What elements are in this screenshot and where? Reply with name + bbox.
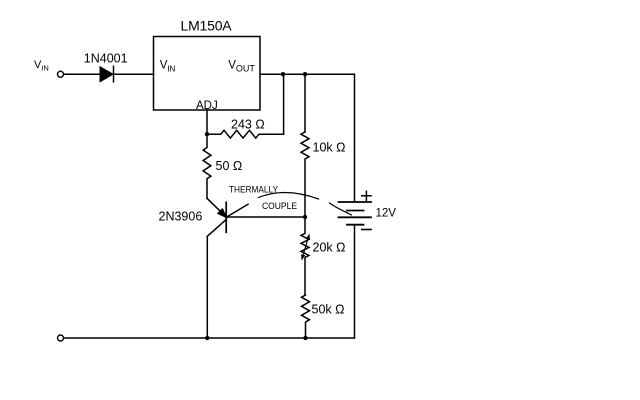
resistor R2 50ohm	[203, 134, 211, 198]
battery plus sign	[362, 191, 371, 200]
svg-text:OUT: OUT	[236, 64, 256, 74]
wire battery bottom	[354, 225, 356, 338]
wire base to divider node	[226, 216, 305, 218]
node junction dot Vout/10k	[303, 72, 307, 76]
transistor Q1 2N3906	[207, 198, 226, 236]
regulator U1 LM150A box	[154, 37, 261, 111]
wire input to diode	[64, 73, 100, 75]
node ground terminal	[58, 335, 64, 341]
node junction dot base/divider	[303, 215, 307, 219]
wire collector down to bottom rail	[206, 236, 208, 338]
node junction dot collector/rail	[205, 336, 209, 340]
node junction dot ADJ	[205, 132, 209, 136]
svg-text:50k Ω: 50k Ω	[312, 303, 345, 317]
node Vin input terminal	[58, 71, 64, 77]
resistor R5 50k	[302, 295, 310, 338]
wire ADJ pin down	[206, 110, 208, 134]
svg-text:50 Ω: 50 Ω	[216, 159, 243, 173]
resistor R3 10k	[301, 132, 309, 217]
wire 10k top lead	[304, 74, 306, 132]
arrow through 20k	[301, 234, 310, 261]
svg-text:12V: 12V	[376, 208, 397, 220]
diode D1 1N4001	[100, 66, 114, 82]
node junction dot Vout/243	[281, 72, 285, 76]
resistor R4 20k	[301, 217, 309, 295]
svg-text:20k Ω: 20k Ω	[313, 241, 346, 255]
battery minus sign	[362, 229, 371, 231]
svg-text:1N4001: 1N4001	[84, 52, 128, 66]
wire Vout to battery top rail	[260, 74, 355, 202]
svg-text:COUPLE: COUPLE	[262, 201, 297, 212]
pin label Vin	[160, 59, 176, 73]
svg-text:2N3906: 2N3906	[159, 210, 203, 224]
svg-text:IN: IN	[41, 64, 49, 73]
node junction dot 50k/rail	[303, 336, 307, 340]
wire bottom rail	[64, 337, 355, 339]
svg-text:10k Ω: 10k Ω	[313, 141, 346, 155]
battery BT1 12V	[339, 202, 372, 225]
svg-text:243 Ω: 243 Ω	[231, 118, 265, 132]
pin label Vout	[228, 59, 255, 73]
label Vin	[34, 59, 49, 73]
wire diode to regulator	[114, 73, 154, 75]
resistor R1 243ohm	[207, 74, 284, 138]
svg-text:IN: IN	[167, 65, 175, 74]
thermally couple dashed arc	[228, 193, 352, 217]
svg-text:THERMALLY: THERMALLY	[229, 185, 279, 196]
svg-text:LM150A: LM150A	[181, 18, 233, 34]
